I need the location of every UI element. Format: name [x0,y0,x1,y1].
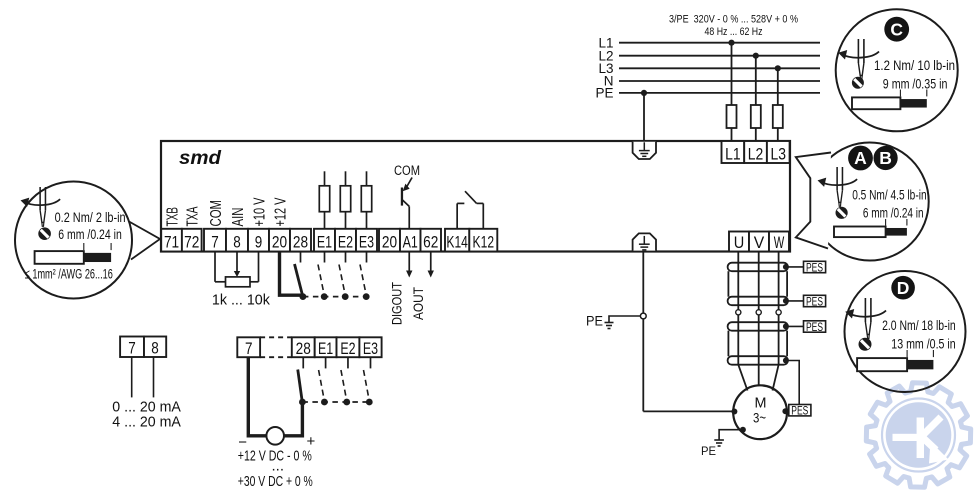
svg-text:7: 7 [211,233,219,252]
PES bond 2 [786,300,804,302]
svg-text:C: C [890,19,903,39]
callout circle C mains torque [836,9,958,131]
ground PE symbol top of drive [633,142,656,159]
node E2 bus lower [343,399,350,406]
switch S1 at 28 [295,252,303,295]
terminal A1 [400,229,421,252]
svg-text:6 mm /0.24 in: 6 mm /0.24 in [863,205,924,221]
dashed bus E1 E2 E3 [302,401,366,403]
svg-text:PE: PE [701,444,716,458]
wire W to motor [773,365,779,391]
terminal K12 [469,229,497,252]
node PE tap [641,90,647,96]
screw icon A/B [836,207,848,219]
node switch junction [299,399,306,406]
svg-text:1k ... 10k: 1k ... 10k [212,292,270,309]
wire PE from drive ground [642,252,644,412]
resistor pull-down E2 [345,171,347,186]
screwdriver icon D [845,298,886,339]
terminal V output [749,232,769,252]
terminal W output [769,232,789,252]
svg-text:9: 9 [255,233,263,252]
wire V to motor [758,365,760,386]
svg-text:AOUT: AOUT [411,287,426,320]
terminal 9 [248,229,269,252]
terminal K14 [445,229,469,252]
terminal U output [729,232,749,252]
svg-text:smd: smd [179,148,221,169]
svg-text:E2: E2 [340,339,355,358]
svg-text:B: B [879,148,892,168]
svg-text:L2: L2 [748,146,764,164]
switch contact E1 lower [319,357,326,399]
callout circle A/B terminal torque [811,143,929,261]
svg-text:6 mm /0.24 in: 6 mm /0.24 in [58,226,122,242]
voltage source V1 [266,427,284,445]
terminal L3 input [767,141,790,163]
svg-text:2.0 Nm/ 18 lb-in: 2.0 Nm/ 18 lb-in [882,317,956,333]
svg-text:PES: PES [806,322,823,334]
wire motor frame to PE [719,430,743,440]
terminal 28 [290,229,311,252]
terminal E1 external supply [315,337,337,357]
svg-text:A: A [854,148,867,168]
svg-text:1.2 Nm/ 10 lb-in: 1.2 Nm/ 10 lb-in [874,57,955,73]
svg-text:0.2 Nm/ 2 lb-in: 0.2 Nm/ 2 lb-in [55,209,126,225]
inverter U1 smd enclosure [161,141,790,252]
relay contact K14/K12 [457,191,483,229]
svg-text:+12 V: +12 V [272,197,289,226]
svg-text:PES: PES [806,296,823,308]
svg-text:E3: E3 [363,339,378,358]
svg-text:28: 28 [293,233,308,252]
terminal E1 [314,229,335,252]
switch contact E3 [360,252,367,295]
wire L1 [619,42,820,44]
terminal 20 [379,229,400,252]
watermark logo gear [866,383,970,487]
terminal E3 external supply [359,337,381,357]
screwdriver icon A/B [818,167,858,206]
svg-text:COM: COM [394,163,420,178]
svg-text:9 mm /0.35 in: 9 mm /0.35 in [883,76,948,92]
node motor frame ground [740,427,746,433]
arrow AOUT from 62 [428,252,434,278]
svg-text:8: 8 [233,233,241,252]
wire PE drop [643,93,645,141]
motor M 3~ [733,385,787,439]
svg-text:W: W [774,234,785,252]
terminal 7 [204,229,226,252]
fuse F3 [773,105,783,128]
terminal L2 input [744,141,767,163]
svg-text:0.5 Nm/ 4.5 lb-in: 0.5 Nm/ 4.5 lb-in [852,187,926,203]
PES bond 4 motor [789,405,811,416]
svg-text:71: 71 [164,233,179,252]
resistor pull-down E1 [324,171,326,186]
wire strip icon D [906,350,908,357]
svg-text:E1: E1 [318,339,333,358]
wire shield to motor PES [786,361,799,405]
screw icon C [852,77,864,89]
terminal 7 external supply [237,337,260,357]
node shield bond [783,264,789,270]
svg-text:E2: E2 [338,233,353,252]
svg-text:AIN: AIN [230,208,247,227]
svg-text:...: ... [272,458,285,475]
terminal 7 current input [120,337,144,358]
wire U phase [737,252,739,365]
svg-text:U: U [734,234,745,252]
cable shield ferrule 1 [728,263,788,272]
wire PE [619,92,820,94]
terminal 28 external supply [292,337,315,357]
badge B [874,146,898,170]
svg-text:20: 20 [382,233,397,252]
PES bond 1 [786,266,804,268]
ground PE motor [714,439,724,441]
connector plugs between cable sections [736,310,741,315]
callout pointer A/B to drive [796,153,831,249]
resistor pull-down E3 [366,171,368,186]
arrow DIGOUT from A1 [406,252,412,278]
callout circle control-terminal torque [15,182,132,299]
transistor open collector DIGOUT [402,178,412,229]
terminal E2 external supply [337,337,360,357]
wire L3 [619,67,820,69]
screw icon D [859,338,872,351]
svg-text:8: 8 [151,339,159,358]
svg-text:3~: 3~ [753,410,766,426]
node PE junction [640,313,646,319]
cable shield ferrule 2 [728,297,788,306]
svg-text:+10 V: +10 V [251,197,268,226]
svg-text:TXB: TXB [164,207,181,227]
switch S2 at 28 [298,357,304,400]
svg-text:≤ 1mm² /AWG 26...16: ≤ 1mm² /AWG 26...16 [25,267,113,282]
screwdriver icon C [838,39,879,80]
shield wall section 1 [727,271,729,297]
svg-text:COM: COM [208,200,225,227]
badge A [848,146,873,171]
svg-text:TXA: TXA [185,206,202,226]
badge D [891,276,915,300]
spare terminal (dashed) [260,336,292,338]
switch contact E2 lower [341,357,348,399]
wire strip icon [83,243,85,250]
wire to PE electrode [609,316,640,323]
cable shield ferrule 3 [728,322,788,331]
screw icon [38,227,51,240]
callout pointer to terminal 71 [129,222,160,260]
terminal 8 [226,229,248,252]
wire L1 drop [731,43,733,141]
node L1 tap [728,40,734,46]
node E1 bus [321,293,328,300]
svg-text:28: 28 [296,339,311,358]
wire from 8 [153,357,155,397]
svg-text:PE: PE [586,314,603,329]
node E2 bus [342,293,349,300]
callout circle D motor torque [845,271,966,392]
switch contact E2 [339,252,346,295]
node motor PES [782,408,788,414]
svg-text:D: D [897,278,910,298]
switch contact E1 [318,252,325,295]
ground PE left [605,322,614,324]
svg-text:L3: L3 [771,146,787,164]
svg-text:20: 20 [272,233,287,252]
node shield bond [783,298,789,304]
svg-text:A1: A1 [403,233,418,252]
node E3 bus [363,293,370,300]
svg-text:K12: K12 [473,233,495,252]
cable shield ferrule 4 [728,356,788,365]
node shield bond [783,323,789,329]
wire +12V from 20 (bold) [280,252,302,296]
wire W phase [778,252,780,365]
wire V phase [758,252,760,365]
wire L3 drop [777,68,779,141]
svg-text:+30 V DC + 0 %: +30 V DC + 0 % [238,473,313,490]
wire N [619,80,820,82]
potentiometer R1 1k..10k [215,252,259,287]
fuse F1 [727,105,737,128]
dashed bus to E1 E2 E3 [303,296,367,298]
badge C [884,17,909,42]
terminal 72 [182,229,202,252]
svg-text:E1: E1 [317,233,332,252]
wiper arrow from AIN 8 [234,252,240,278]
svg-text:PES: PES [791,406,808,418]
terminal E2 [335,229,356,252]
svg-text:V: V [754,234,765,252]
PES bond 3 [786,325,804,327]
svg-text:DIGOUT: DIGOUT [390,282,405,325]
svg-text:PE: PE [595,86,613,101]
svg-text:3/PE 320V - 0 % ... 528V + 0: 3/PE 320V - 0 % ... 528V + 0 % [669,13,798,25]
screwdriver icon [21,187,61,226]
wire L2 drop [755,56,757,141]
terminal 62 [421,229,442,252]
node E3 bus lower [366,399,373,406]
wire strip icon A/B [885,219,887,226]
node L2 tap [753,53,759,59]
wire from 7 [131,357,133,397]
ground PE symbol bottom of drive [633,233,656,250]
terminal 71 [161,229,182,252]
wire U to motor [738,365,747,391]
svg-text:7: 7 [128,339,136,358]
svg-text:L1: L1 [725,146,741,164]
svg-text:K14: K14 [446,233,468,252]
wire strip icon C [899,90,901,97]
wire L2 [619,55,820,57]
node E1 bus lower [321,399,328,406]
svg-text:48 Hz ... 62 Hz: 48 Hz ... 62 Hz [705,26,763,38]
terminal L1 input [722,141,745,163]
svg-text:4 ... 20 mA: 4 ... 20 mA [112,414,181,431]
switch contact E3 lower [364,357,371,399]
wire bold from source to switch [284,403,302,436]
svg-text:7: 7 [245,339,253,358]
svg-text:13 mm /0.5 in: 13 mm /0.5 in [891,336,955,352]
node motor PE left [731,409,737,415]
node junction 28 [300,293,307,300]
svg-text:E3: E3 [359,233,374,252]
node L3 tap [775,65,781,71]
terminal 20 [269,229,290,252]
node shield bond [783,358,789,364]
svg-text:72: 72 [184,233,199,252]
svg-text:PES: PES [806,262,823,274]
wire PE bus to motor [643,410,734,412]
fuse F2 [751,105,761,128]
terminal E3 [356,229,377,252]
shield wall section 2 [727,331,729,357]
wire bold from 7 to source [248,357,266,436]
terminal 8 current input [144,337,166,358]
svg-text:62: 62 [423,233,438,252]
